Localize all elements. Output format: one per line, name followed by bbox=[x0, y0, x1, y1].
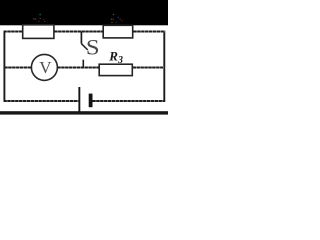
wire top bbox=[4, 31, 166, 33]
svg-text:S: S bbox=[86, 36, 100, 60]
black header band bbox=[0, 0, 168, 25]
battery short plate bbox=[89, 94, 93, 108]
battery long plate bbox=[78, 87, 80, 112]
svg-text:V: V bbox=[39, 58, 52, 77]
wire frame left bbox=[3, 32, 5, 102]
wire frame right bbox=[163, 32, 165, 102]
resistor R2 bbox=[103, 25, 133, 38]
resistor R1 bbox=[23, 25, 54, 39]
wire middle bbox=[4, 67, 164, 69]
switch S post bbox=[80, 32, 82, 44]
svg-text:R3: R3 bbox=[108, 49, 123, 66]
voltmeter V1 circle bbox=[31, 54, 57, 80]
label R1 remnant specks bbox=[33, 14, 45, 22]
wire bottom bbox=[4, 100, 166, 102]
label R2 remnant specks bbox=[111, 14, 123, 23]
node tick junction bbox=[82, 60, 84, 68]
bottom rule line bbox=[0, 111, 168, 114]
resistor R3 bbox=[99, 64, 132, 75]
switch S blade bbox=[81, 44, 87, 50]
